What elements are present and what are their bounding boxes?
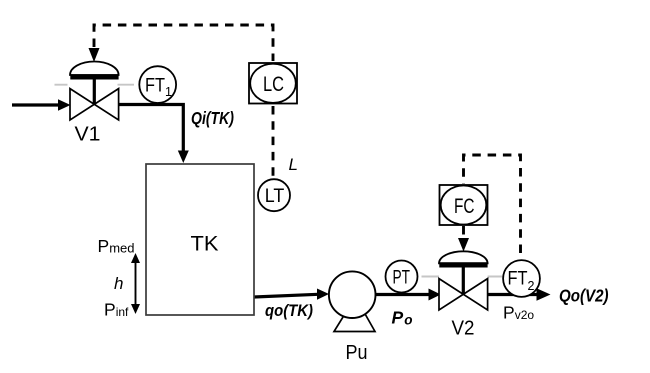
- svg-text:PT: PT: [393, 268, 411, 289]
- svg-text:Qo(V2): Qo(V2): [559, 286, 609, 306]
- svg-text:1: 1: [165, 85, 172, 99]
- svg-text:V2: V2: [452, 318, 475, 340]
- svg-text:TK: TK: [191, 233, 219, 256]
- svg-text:LT: LT: [265, 186, 285, 207]
- svg-text:2: 2: [528, 279, 535, 293]
- svg-text:h: h: [114, 274, 123, 293]
- svg-text:L: L: [289, 155, 298, 174]
- svg-text:FT: FT: [145, 76, 165, 97]
- svg-text:LC: LC: [263, 73, 284, 96]
- svg-text:V1: V1: [75, 124, 101, 146]
- svg-text:qo(TK): qo(TK): [265, 301, 313, 320]
- svg-text:FT: FT: [508, 269, 528, 290]
- svg-text:FC: FC: [454, 195, 475, 218]
- svg-text:Qi(TK): Qi(TK): [191, 108, 234, 128]
- svg-text:Pu: Pu: [346, 342, 368, 364]
